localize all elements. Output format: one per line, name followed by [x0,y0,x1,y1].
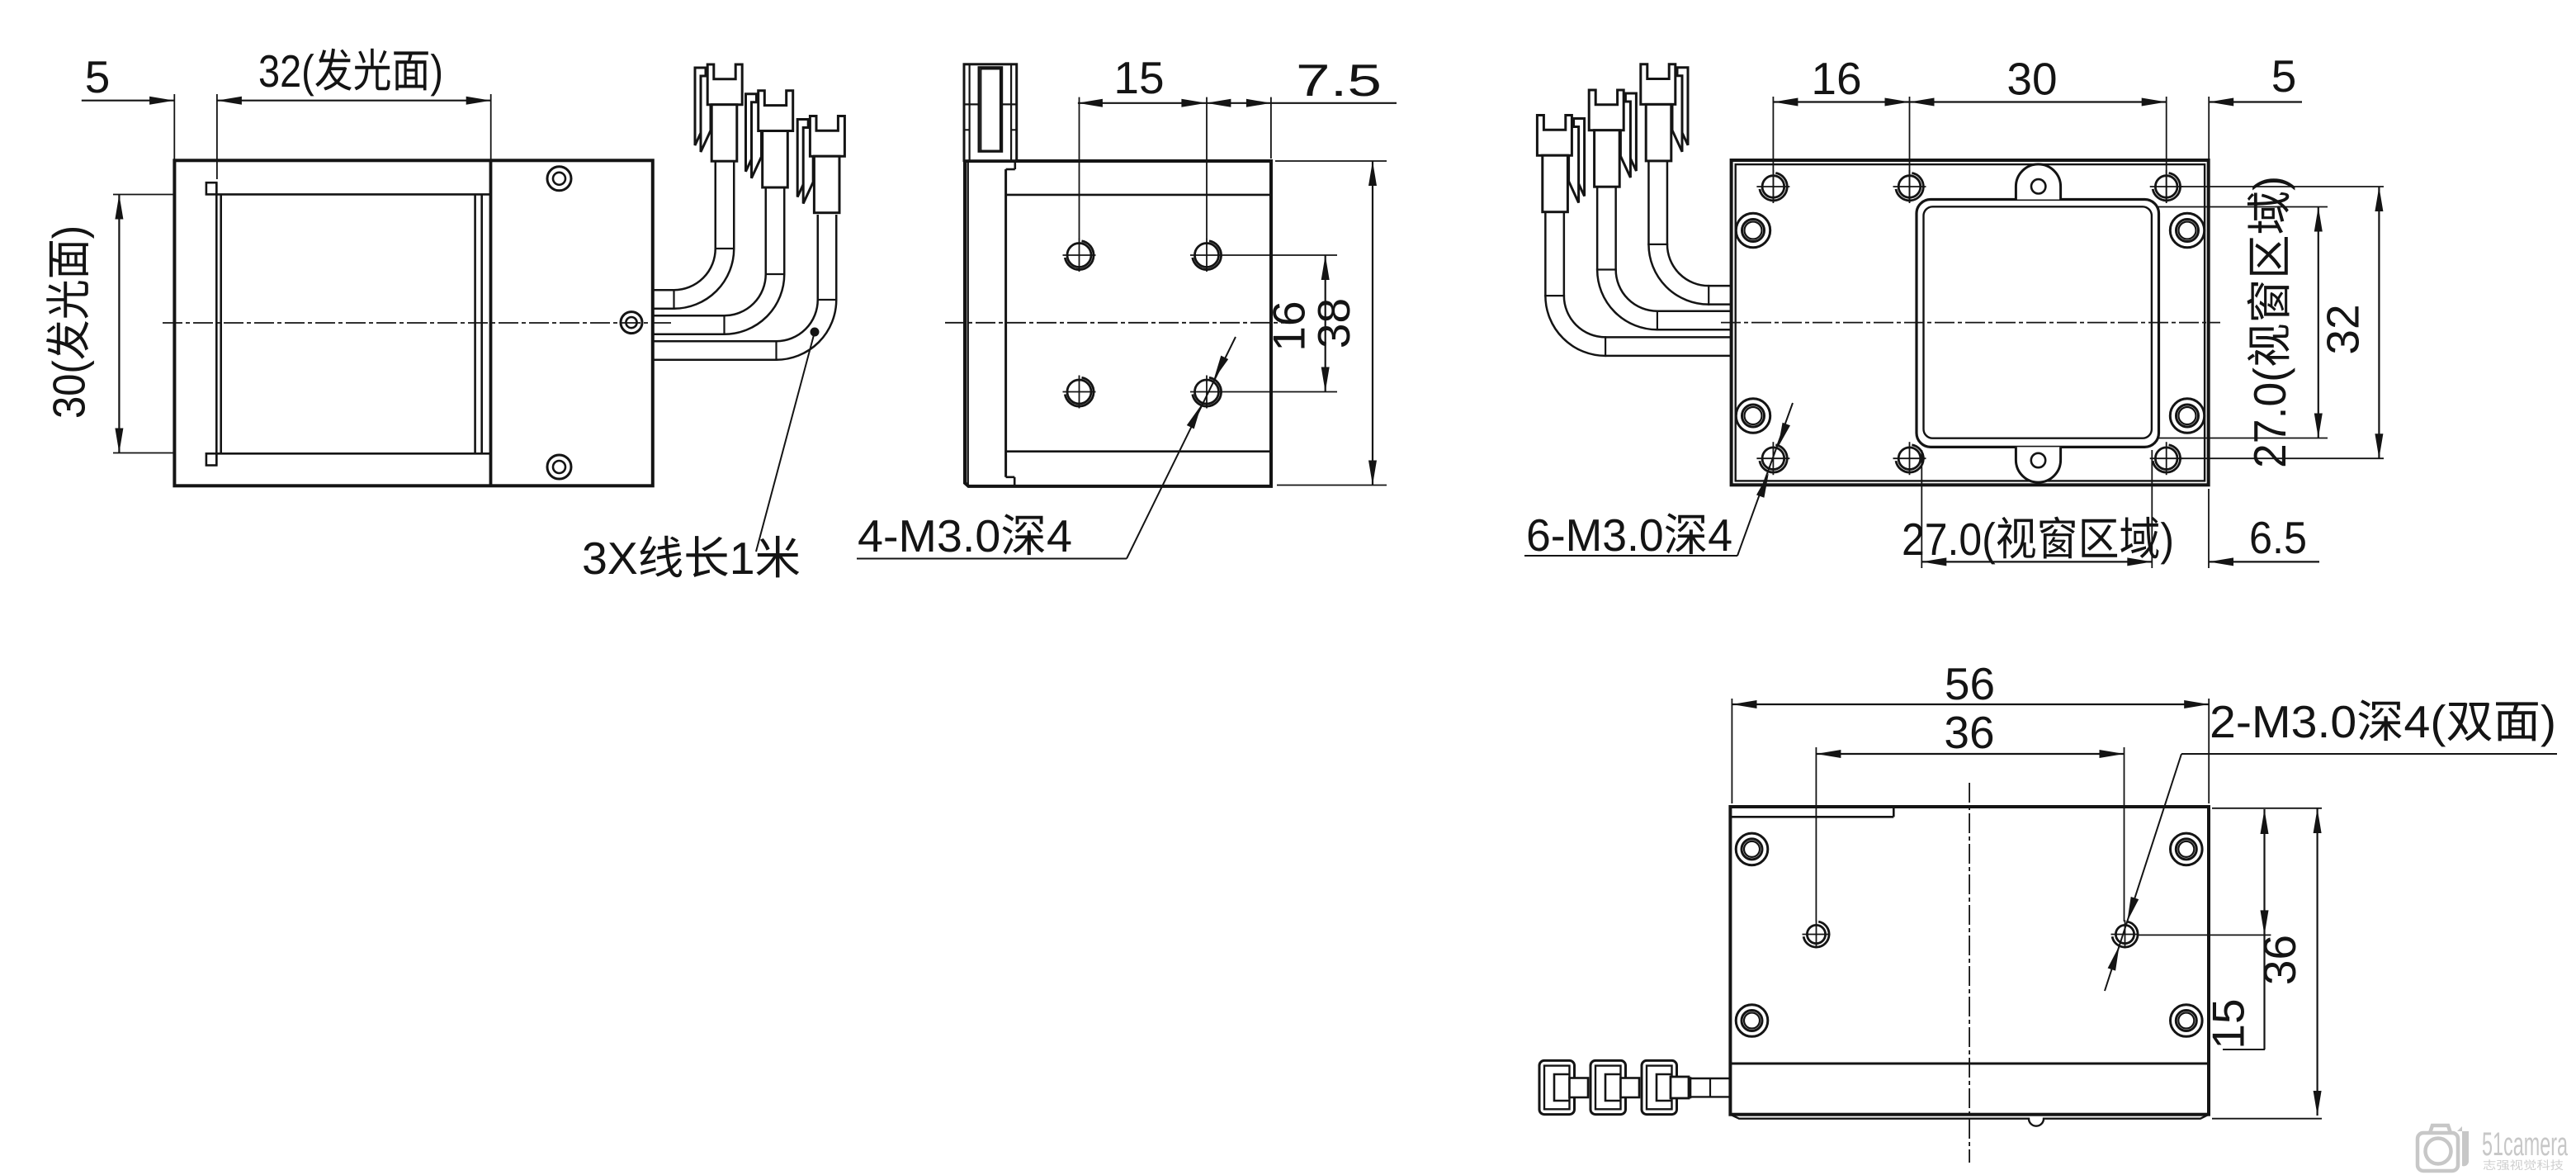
view D hole ext vertical right [2124,747,2125,922]
view A dim 32 [217,100,491,102]
view C body outline [1732,160,2209,485]
view B centerline [945,322,1284,324]
view C counterbore bottom-left [1736,399,1770,433]
view D hole ext vertical left [1815,747,1817,922]
view A emitting surface top tab [206,182,216,194]
view A emitting surface right edges [474,194,476,453]
svg-text:32: 32 [2318,304,2369,354]
view C M3 hole top 3 [2155,176,2177,198]
view D strip line [1730,1063,2209,1065]
view A ext lines left [113,194,174,196]
view A cable 3 [651,215,827,351]
view D counterbore top-left [1736,833,1768,865]
svg-text:6.5: 6.5 [2249,512,2307,563]
view B label underline [857,558,1127,560]
view C connector C2 [1625,93,1636,171]
view B hole bottom-right [1195,380,1219,404]
view A emitting surface top edge [216,193,490,196]
view D dim 15 right [2263,809,2265,1049]
view A connector K3 [797,120,808,197]
view D dim 56 [1732,704,2210,705]
svg-text:15: 15 [2203,998,2254,1049]
svg-text:5: 5 [2271,50,2297,102]
view A emitting surface bottom tab [206,453,216,465]
view A cable 2 [651,188,775,325]
view B hole top-left [1067,244,1091,268]
view B dim 38 [1372,161,1373,486]
view B hole top-right [1195,244,1219,268]
view C M3 hole top 2 [1898,176,1921,198]
view D M3 hole right [2115,925,2134,943]
view C ext lines top [1772,97,1774,202]
svg-text:5: 5 [85,51,111,102]
view C connector C1 [1574,119,1585,197]
view C M3 hole bottom 3 [2155,448,2177,470]
view A centerline [163,322,671,324]
view C dim 5 [2209,101,2302,102]
view C counterbore bottom-right [2170,399,2204,433]
view C bottom tab [2016,447,2060,482]
view A emitting surface bottom edge [216,452,490,455]
view B leader line [1127,337,1236,559]
view D hole ext horizontal [2138,934,2271,936]
view B left edge inner line [967,161,968,486]
view C ext lines 27.0 vertical [2158,206,2328,208]
view C dim 27.0 horizontal [1921,561,2152,562]
view C connector C3 [1677,68,1688,145]
view C dim 27.0 vertical [2318,207,2319,438]
svg-text:16: 16 [1811,53,1861,104]
svg-text:15: 15 [1113,52,1164,103]
view D dim 36 top [1816,753,2124,755]
view A dim 5 [82,100,174,102]
view D label underline [2181,753,2557,755]
view D leader line [2105,754,2181,991]
view B inner top line [1006,194,1271,197]
view A leader line 3X [756,332,815,552]
view A screw hole top [547,167,571,191]
svg-text:36: 36 [1944,707,1994,758]
view C M3 hole bottom 1 [1762,448,1784,470]
view D top notch [1730,816,1893,818]
view C leader line [1737,403,1793,556]
view D ext lines 56 [1731,699,1732,803]
svg-text:38: 38 [1308,298,1359,348]
view B inner bottom line [1006,450,1271,452]
view C counterbore top-right [2170,213,2204,247]
view D counterbore top-right [2171,833,2203,865]
view C window outer [1917,200,2159,448]
view D M3 hole left [1807,925,1825,943]
view A connector K2 [746,94,757,172]
view C window inner [1924,206,2152,438]
view A leader dot 3X [811,328,820,337]
view A screw hole bottom [547,455,571,479]
view C body inner frame [1736,164,2205,481]
view B dim 7.5 [1206,102,1397,104]
view D bottom chamfer line [1730,1115,2209,1126]
view A body outline [174,160,652,486]
view C label 6-M3.0深4 [1529,513,1732,554]
view C cable C1 [1555,213,1732,347]
view D counterbore bottom-left [1736,1005,1768,1037]
svg-text:7.5: 7.5 [1296,54,1382,106]
view A emitting surface left edge [215,182,218,465]
view D body outline [1730,807,2209,1115]
view D dim 15 end dash [2223,1049,2265,1050]
view B body outline [965,161,1271,486]
svg-text:56: 56 [1945,658,1995,709]
view C dim 32 [2378,187,2380,458]
view B top step notch [1014,161,1017,169]
svg-text:16: 16 [1264,301,1315,351]
view B dim 15 [1078,102,1207,104]
view D wire [1671,1077,1689,1098]
view C ext lines 32 [2179,186,2384,187]
svg-text:51camera: 51camera [2482,1126,2568,1163]
view C M3 hole top 1 [1762,176,1784,198]
view C dim 30 [1910,101,2167,102]
view D connector unit 2 [1591,1060,1626,1114]
view B bottom step notch [1006,476,1015,478]
view C top tab [2016,164,2060,200]
view C ext lines bottom [1921,450,1922,568]
view B label 4-M3.0深4 [858,514,1071,555]
svg-text:30: 30 [2006,54,2057,105]
view A ext lines top [173,94,175,160]
view C M3 hole bottom 2 [1898,448,1921,470]
view A connector K1 [695,68,706,145]
view B ext lines 38 [1275,160,1387,162]
view D ext lines right [2212,808,2322,809]
view C dim 6.5 [2209,561,2319,562]
view C label underline [1524,555,1737,557]
view D label 2-M3.0深4(双面) [2212,699,2554,746]
view C centerline [1721,322,2220,324]
view D dim 36 right [2317,808,2318,1116]
view B bracket inner vertical [1004,169,1007,477]
view A cable 1 [651,162,725,300]
view C dim 16 [1773,101,1909,102]
view B ext lines 16 [1223,254,1337,256]
view A body divider [489,160,493,486]
view A center pivot circle [621,312,642,334]
watermark chinese text [2484,1159,2564,1170]
view D counterbore bottom-right [2171,1005,2203,1037]
view B dim 16 [1325,255,1326,392]
view B ext lines top [1079,97,1080,239]
svg-text:36: 36 [2254,935,2305,985]
view C cable C2 [1606,187,1732,320]
view B connector [964,64,1017,161]
view C counterbore top-left [1736,213,1770,247]
view C cable C3 [1658,162,1732,295]
view B hole bottom-left [1067,380,1091,404]
view A label 3X线长1米 [584,536,799,578]
watermark camera icon [2418,1133,2458,1171]
view A dim 30 [118,195,120,453]
view D connector unit 1 [1539,1060,1575,1114]
view D vertical centerline [1969,783,1970,1163]
view D connector unit 3 [1642,1060,1677,1114]
